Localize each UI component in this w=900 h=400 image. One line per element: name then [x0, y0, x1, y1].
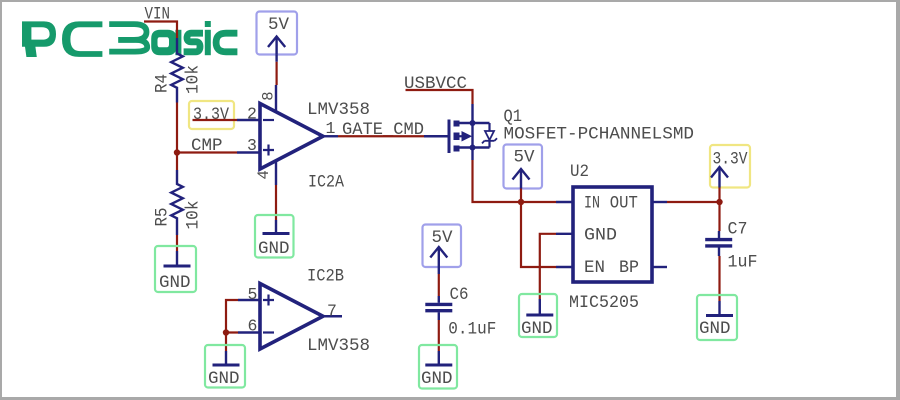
ground under R5: [155, 246, 196, 293]
svg-text:OUT: OUT: [610, 194, 638, 214]
svg-text:10k: 10k: [184, 201, 204, 230]
svg-text:5V: 5V: [514, 148, 536, 168]
svg-text:EN: EN: [584, 258, 605, 278]
svg-text:C7: C7: [728, 220, 748, 240]
junction: [174, 149, 180, 155]
net GATE_CMD: [338, 120, 424, 140]
op-amp U1B (IC2B): [238, 267, 370, 357]
ground under C7: [697, 295, 737, 340]
svg-text:5: 5: [248, 285, 258, 304]
svg-text:2: 2: [247, 105, 257, 124]
svg-text:1: 1: [326, 119, 336, 138]
supply 3.3V at OUT: [710, 145, 750, 188]
svg-text:0.1uF: 0.1uF: [448, 319, 496, 339]
svg-text:R4: R4: [153, 74, 173, 93]
junction: [518, 199, 524, 205]
wire node to EN: [521, 202, 556, 267]
svg-text:3.3V: 3.3V: [713, 150, 748, 170]
ground under IC2B: [205, 345, 245, 389]
net VIN: [144, 5, 177, 39]
supply 5V above C6: [423, 225, 462, 275]
svg-text:IC2B: IC2B: [307, 267, 344, 287]
svg-text:R5: R5: [153, 208, 173, 227]
svg-text:BP: BP: [619, 258, 639, 278]
wire drain to node: [473, 160, 522, 202]
wire: [520, 189, 522, 203]
svg-text:MIC5205: MIC5205: [569, 293, 639, 313]
svg-text:4: 4: [255, 170, 273, 179]
svg-text:3: 3: [247, 136, 257, 155]
wire: [718, 188, 720, 203]
svg-text:7: 7: [327, 302, 337, 321]
wire: [225, 333, 227, 352]
capacitor C7: [705, 202, 757, 301]
wire node to IN: [521, 201, 556, 203]
svg-text:6: 6: [248, 317, 258, 336]
svg-text:MOSFET-PCHANNELSMD: MOSFET-PCHANNELSMD: [504, 125, 695, 145]
supply 5V at Q1 drain: [504, 145, 543, 189]
node 3.3V label on pin 2: [189, 101, 237, 129]
node CMP: [177, 136, 237, 156]
svg-text:GND: GND: [208, 369, 240, 389]
svg-text:GND: GND: [521, 319, 553, 339]
svg-text:GND: GND: [258, 239, 290, 259]
svg-text:IC2A: IC2A: [308, 173, 344, 193]
junction: [716, 199, 722, 205]
transistor Q1: [424, 104, 694, 160]
op-amp U1A (IC2A): [237, 85, 370, 193]
wire OUT: [667, 201, 720, 203]
PCBasic logo: [22, 21, 237, 57]
junction (Q1 source): [470, 120, 476, 126]
svg-text:5V: 5V: [268, 15, 290, 35]
svg-text:3.3V: 3.3V: [193, 105, 229, 125]
ground under U2: [519, 294, 557, 339]
svg-text:LMV358: LMV358: [307, 100, 370, 120]
svg-text:10k: 10k: [184, 65, 204, 94]
junction (Q1 drain): [470, 145, 476, 151]
wire: [176, 103, 178, 153]
wire: [276, 62, 278, 85]
wire: [275, 185, 277, 220]
svg-text:IN: IN: [584, 194, 600, 214]
svg-text:8: 8: [260, 91, 278, 100]
ground under IC2A pin 4: [255, 215, 294, 259]
IC U2: [556, 162, 667, 313]
resistor R2 (R5): [153, 153, 204, 252]
ground under C6: [419, 345, 457, 389]
svg-text:1uF: 1uF: [728, 253, 758, 273]
junction: [223, 329, 229, 335]
svg-text:GND: GND: [699, 319, 731, 339]
svg-text:GND: GND: [421, 369, 453, 389]
svg-text:GND: GND: [584, 226, 617, 246]
svg-text:U2: U2: [570, 162, 589, 182]
svg-text:LMV358: LMV358: [307, 336, 370, 356]
net USBVCC: [404, 74, 473, 104]
resistor R1 (R4): [153, 38, 204, 103]
svg-text:C6: C6: [450, 285, 469, 305]
capacitor C6: [425, 274, 496, 351]
supply 5V above IC2A: [257, 12, 298, 62]
wire U2 GND pin: [540, 234, 556, 299]
svg-text:5V: 5V: [432, 228, 454, 248]
svg-text:GND: GND: [159, 273, 191, 293]
wire pin5 to pin6: [226, 300, 238, 333]
